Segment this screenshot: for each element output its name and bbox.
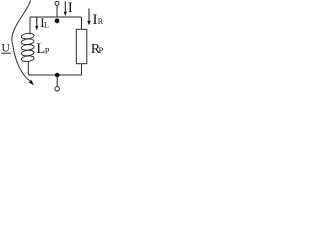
wire resistor top lead xyxy=(81,17,83,29)
inductor LP coil xyxy=(21,33,34,62)
wire left vertical to inductor xyxy=(29,17,31,34)
current arrow IR xyxy=(88,9,90,22)
top terminal stub xyxy=(56,5,58,17)
bottom terminal stub xyxy=(56,75,58,87)
svg-text:P: P xyxy=(45,45,50,55)
node top junction xyxy=(55,18,60,23)
wire bottom horizontal xyxy=(29,74,82,76)
voltage arc arrow U xyxy=(12,0,31,81)
wire inductor bottom lead xyxy=(28,61,30,75)
svg-text:I: I xyxy=(93,12,98,28)
current arrow IL xyxy=(36,17,38,26)
node bottom junction xyxy=(55,73,60,78)
top terminal circle xyxy=(55,1,59,5)
resistor RP box xyxy=(76,29,87,63)
wire resistor bottom lead xyxy=(81,64,83,75)
bottom terminal circle xyxy=(55,87,59,91)
svg-text:L: L xyxy=(44,20,49,29)
svg-text:R: R xyxy=(98,17,104,26)
svg-text:I: I xyxy=(68,0,73,16)
wire top horizontal xyxy=(30,16,82,18)
current arrow I xyxy=(64,1,66,12)
svg-text:P: P xyxy=(99,45,104,55)
